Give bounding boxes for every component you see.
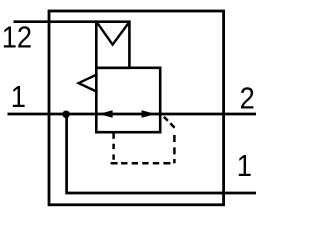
pilot stub solid — [112, 131, 115, 139]
svg-text:2: 2 — [240, 82, 255, 116]
svg-text:1: 1 — [237, 149, 252, 183]
wire main line port 1 to port 2 — [8, 113, 257, 116]
enclosure box (component frame) — [49, 11, 224, 205]
wire port 12 line — [14, 20, 98, 23]
svg-text:1: 1 — [11, 81, 26, 115]
arrowhead left — [99, 110, 113, 117]
svg-text:12: 12 — [2, 21, 32, 55]
pilot spring box — [96, 22, 129, 68]
wire branch down and bottom port 1 — [67, 114, 256, 193]
valve body square U1 — [96, 68, 160, 132]
arrowhead right — [142, 110, 156, 117]
vent triangle — [79, 74, 98, 92]
junction node dot — [62, 111, 70, 119]
spring V symbol — [98, 23, 129, 44]
pilot control dashed line — [111, 117, 175, 164]
